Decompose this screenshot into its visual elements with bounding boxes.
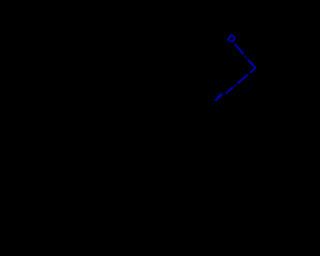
wire dot B — [245, 56, 246, 58]
wire dash A (ray leaving D) — [235, 44, 244, 54]
arrowhead on ray — [217, 93, 222, 97]
wire dash H (ray end) — [215, 98, 219, 101]
wire dash D2 — [237, 74, 248, 83]
wire dash F — [226, 87, 233, 93]
wire dot E — [234, 85, 236, 86]
wire dash C (through right-edge corner) — [248, 59, 256, 72]
